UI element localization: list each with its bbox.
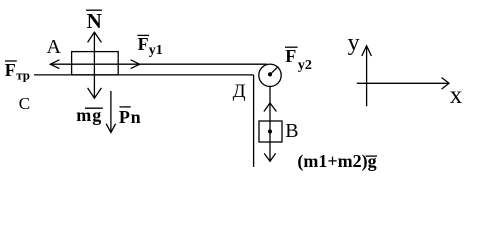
weight (m1+m2)g arrowhead (down) [264,153,275,161]
overline of N [86,9,102,11]
block B center point [268,129,272,133]
force F_y1 arrowhead (right) [131,60,140,69]
svg-text:F: F [138,34,149,54]
table right edge [253,75,255,167]
force Pn arrowhead (down) [106,124,115,133]
pulley crank line [270,66,278,74]
force F_tr arrowhead (left) [50,60,59,69]
wire: rope from pulley down to block B [269,86,271,161]
svg-text:y1: y1 [149,43,163,58]
svg-text:B: B [285,120,298,142]
svg-text:Д: Д [233,81,246,102]
overline of g in (m1+m2)g [366,155,377,157]
svg-text:mg: mg [76,105,102,125]
svg-text:y: y [348,30,360,56]
normal force N / weight mg arrow line [93,32,95,98]
pulley axle dot [268,72,272,76]
table surface [34,74,254,76]
y axis arrowhead [362,46,372,56]
svg-text:(m1+m2)g: (m1+m2)g [297,151,376,172]
wire: rope from block m1 to pulley [50,63,267,65]
svg-text:F: F [5,60,16,80]
overline of g in mg [85,107,103,109]
block m1 [72,52,119,75]
y axis line [366,46,368,106]
svg-text:A: A [47,36,62,58]
overline of F_y2 [285,46,298,48]
x axis arrowhead [442,78,449,90]
x axis line [357,82,449,84]
svg-text:x: x [450,82,463,109]
svg-text:тр: тр [16,68,30,83]
svg-text:C: C [19,94,30,113]
block B [259,121,282,142]
svg-text:Pn: Pn [119,107,142,127]
pulley at D [259,64,281,86]
overline of F_y1 [137,34,149,36]
overline of F_tr [5,60,17,62]
overline of Pn [120,106,131,108]
weight mg arrowhead (down) [88,88,102,98]
force Pn arrow [110,91,112,133]
svg-text:y2: y2 [298,58,312,73]
svg-text:N: N [87,9,102,33]
tension F_y2 arrowhead (up, on rope) [264,103,277,112]
svg-text:F: F [285,46,296,66]
normal force N arrowhead (up) [88,32,102,42]
